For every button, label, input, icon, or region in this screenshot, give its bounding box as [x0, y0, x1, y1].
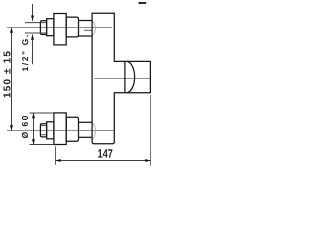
top inlet pipe: [79, 20, 93, 22]
dim dia60 text: [22, 116, 28, 138]
valve body outline: [92, 13, 150, 143]
dim dia60 bottom arrow: [32, 139, 35, 144]
top nipple: [40, 21, 46, 35]
top inlet fillet arc: [93, 21, 96, 35]
dim half-inch top arrow: [32, 4, 34, 21]
top fitting centerline: [7, 27, 112, 29]
dim 147 left arrow: [56, 159, 61, 162]
dim 150+-15 line: [11, 28, 13, 131]
bottom nipple thread lines: [41, 125, 47, 127]
dim 150 top arrow: [10, 28, 13, 33]
dim 147 extension line right: [150, 95, 152, 166]
outlet centerline: [95, 78, 151, 80]
bottom inlet pipe: [79, 121, 93, 123]
dim half-inch extension lines: [25, 22, 47, 24]
bottom inlet fillet arc: [93, 123, 96, 140]
dim dia60 line: [33, 113, 35, 145]
dim 150 text: [3, 51, 10, 97]
top right dash: [139, 2, 147, 4]
top nut: [54, 14, 66, 45]
bottom nut: [54, 113, 66, 145]
top cone piece: [66, 17, 78, 37]
outlet boss face line: [124, 61, 126, 92]
dim half-inch bottom arrow: [32, 35, 34, 65]
outlet boss arc: [127, 61, 135, 92]
dim 150 bottom arrow: [10, 125, 13, 130]
top collar: [47, 19, 54, 36]
dim dia60 top arrow: [32, 113, 35, 118]
bottom nipple: [40, 124, 46, 137]
dim 147 extension line left: [55, 146, 57, 165]
dim half-inch text: [22, 35, 28, 71]
dim 147 text: [98, 149, 112, 157]
dim 147 line: [56, 160, 151, 162]
bottom cone piece: [66, 117, 78, 141]
bottom fitting centerline: [7, 130, 114, 132]
bottom collar: [47, 122, 54, 139]
dim dia60 extension lines: [30, 112, 54, 114]
dim 147 right arrow: [145, 159, 150, 162]
